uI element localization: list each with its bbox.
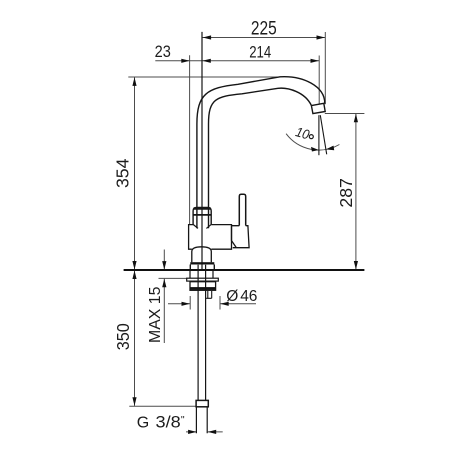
svg-text:MAX 15: MAX 15 [147, 287, 164, 344]
svg-text:287: 287 [336, 178, 356, 208]
svg-text:G: G [137, 415, 149, 432]
svg-text:354: 354 [112, 158, 132, 188]
svg-text:23: 23 [155, 43, 171, 61]
svg-text:Ø: Ø [226, 288, 238, 305]
svg-text:214: 214 [249, 43, 271, 61]
svg-text:350: 350 [113, 323, 133, 350]
svg-text:": " [181, 414, 185, 426]
svg-text:3/8: 3/8 [156, 414, 181, 432]
svg-text:46: 46 [240, 288, 257, 305]
svg-text:225: 225 [251, 19, 277, 40]
